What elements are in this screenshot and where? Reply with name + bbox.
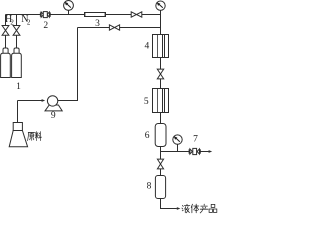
- svg-text:2: 2: [27, 18, 31, 26]
- svg-text:2: 2: [43, 21, 48, 31]
- svg-text:1: 1: [16, 82, 21, 92]
- svg-text:9: 9: [51, 111, 56, 121]
- svg-text:6: 6: [145, 131, 150, 141]
- svg-text:2: 2: [10, 18, 14, 26]
- svg-text:8: 8: [147, 182, 152, 192]
- svg-text:5: 5: [144, 97, 149, 107]
- svg-text:3: 3: [95, 19, 100, 29]
- svg-text:7: 7: [193, 134, 198, 144]
- svg-text:4: 4: [145, 42, 150, 52]
